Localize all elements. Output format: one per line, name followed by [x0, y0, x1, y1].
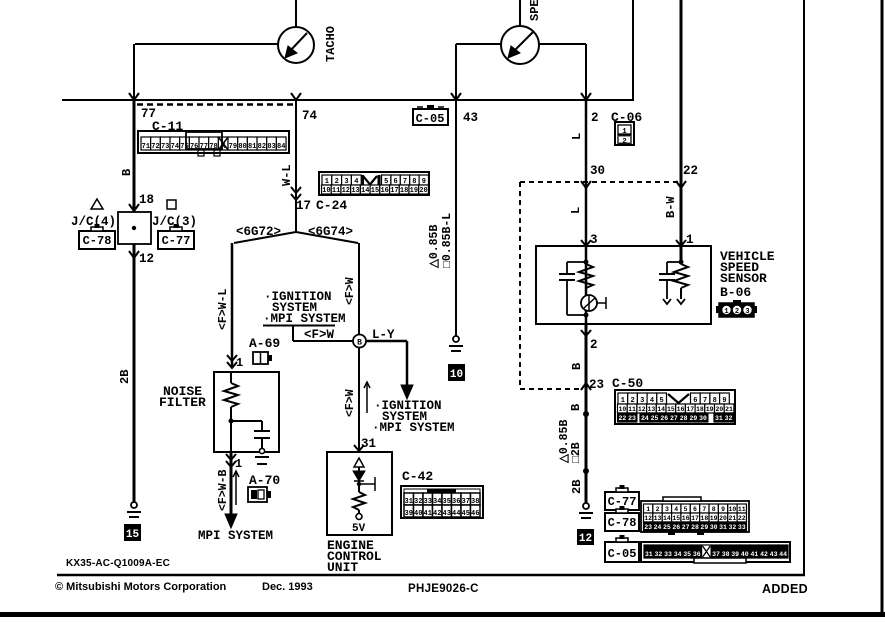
- svg-text:2B: 2B: [118, 370, 132, 384]
- svg-text:23: 23: [644, 524, 652, 531]
- svg-text:L: L: [570, 133, 584, 140]
- svg-text:12: 12: [644, 515, 652, 522]
- svg-text:34: 34: [674, 551, 682, 558]
- svg-text:PHJE9026-C: PHJE9026-C: [408, 583, 479, 595]
- svg-text:W-L: W-L: [280, 164, 294, 186]
- svg-text:C-05: C-05: [416, 112, 445, 126]
- svg-text:13: 13: [351, 187, 359, 195]
- svg-text:83: 83: [267, 143, 275, 151]
- svg-text:KX35-AC-Q1009A-EC: KX35-AC-Q1009A-EC: [66, 558, 170, 569]
- svg-text:15: 15: [672, 515, 680, 522]
- svg-text:B: B: [357, 339, 362, 348]
- svg-text:1: 1: [236, 356, 243, 370]
- svg-text:20: 20: [419, 187, 427, 195]
- svg-text:40: 40: [741, 551, 749, 558]
- svg-text:Dec. 1993: Dec. 1993: [262, 581, 313, 593]
- svg-text:26: 26: [660, 415, 668, 422]
- svg-text:27: 27: [670, 415, 678, 422]
- svg-text:C-78: C-78: [83, 234, 112, 248]
- svg-text:31: 31: [719, 524, 727, 531]
- svg-text:© Mitsubishi Motors Corporatio: © Mitsubishi Motors Corporation: [55, 581, 227, 593]
- svg-text:20: 20: [715, 406, 723, 413]
- svg-text:72: 72: [151, 143, 159, 151]
- svg-text:14: 14: [663, 515, 671, 522]
- svg-text:14: 14: [657, 406, 665, 413]
- svg-text:17: 17: [691, 515, 699, 522]
- svg-text:19: 19: [710, 515, 718, 522]
- svg-text:15: 15: [667, 406, 675, 413]
- svg-text:19: 19: [410, 187, 418, 195]
- svg-text:3: 3: [590, 233, 598, 247]
- svg-text:UNIT: UNIT: [327, 560, 358, 575]
- svg-text:18: 18: [139, 193, 154, 207]
- svg-text:41: 41: [750, 551, 758, 558]
- svg-text:□0.85B-L: □0.85B-L: [441, 213, 454, 268]
- svg-text:40: 40: [414, 510, 422, 518]
- svg-text:81: 81: [248, 143, 256, 151]
- svg-text:△0.85B: △0.85B: [428, 225, 441, 269]
- svg-text:TACHO: TACHO: [324, 26, 338, 62]
- svg-text:<F>W-L: <F>W-L: [217, 288, 230, 330]
- svg-text:10: 10: [618, 406, 626, 413]
- svg-text:16: 16: [682, 515, 690, 522]
- svg-text:L: L: [569, 207, 583, 214]
- svg-text:74: 74: [171, 143, 179, 151]
- svg-text:□2B: □2B: [570, 442, 583, 463]
- svg-text:74: 74: [302, 109, 318, 123]
- svg-text:22: 22: [618, 415, 626, 422]
- svg-text:22: 22: [738, 515, 746, 522]
- svg-text:80: 80: [238, 143, 246, 151]
- svg-text:FILTER: FILTER: [159, 395, 206, 410]
- svg-text:23: 23: [628, 415, 636, 422]
- svg-text:42: 42: [433, 510, 441, 518]
- svg-text:44: 44: [452, 510, 460, 518]
- svg-text:1: 1: [235, 457, 242, 471]
- svg-text:B: B: [570, 363, 584, 370]
- svg-text:43: 43: [463, 111, 478, 125]
- svg-text:43: 43: [443, 510, 451, 518]
- svg-text:14: 14: [361, 187, 369, 195]
- svg-text:15: 15: [371, 187, 379, 195]
- svg-text:<F>W: <F>W: [344, 389, 357, 417]
- svg-text:30: 30: [590, 164, 605, 178]
- svg-text:2: 2: [735, 308, 739, 316]
- svg-text:17: 17: [296, 199, 311, 213]
- svg-text:18: 18: [696, 406, 704, 413]
- svg-text:1: 1: [724, 308, 728, 316]
- svg-text:SPEED: SPEED: [528, 0, 542, 21]
- svg-text:21: 21: [729, 515, 737, 522]
- svg-text:73: 73: [161, 143, 169, 151]
- svg-text:MPI SYSTEM: MPI SYSTEM: [198, 529, 273, 543]
- svg-text:10: 10: [450, 369, 463, 381]
- svg-text:12: 12: [638, 406, 646, 413]
- svg-text:20: 20: [719, 515, 727, 522]
- svg-text:10: 10: [729, 506, 737, 513]
- svg-text:24: 24: [641, 415, 649, 422]
- svg-text:32: 32: [654, 551, 662, 558]
- svg-text:28: 28: [680, 415, 688, 422]
- svg-text:84: 84: [277, 143, 285, 151]
- svg-text:32: 32: [725, 415, 733, 422]
- svg-text:B-W: B-W: [664, 196, 678, 218]
- svg-text:45: 45: [462, 510, 470, 518]
- svg-text:12: 12: [342, 187, 350, 195]
- svg-text:39: 39: [405, 510, 413, 518]
- svg-text:4: 4: [674, 506, 678, 513]
- svg-text:37: 37: [712, 551, 720, 558]
- svg-text:13: 13: [648, 406, 656, 413]
- svg-text:11: 11: [332, 187, 340, 195]
- svg-text:32: 32: [729, 524, 737, 531]
- svg-text:ADDED: ADDED: [762, 582, 808, 596]
- svg-text:5V: 5V: [352, 523, 366, 535]
- svg-text:A-69: A-69: [249, 336, 280, 351]
- svg-text:31: 31: [361, 437, 376, 451]
- svg-text:25: 25: [663, 524, 671, 531]
- svg-text:13: 13: [654, 515, 662, 522]
- svg-text:2: 2: [622, 138, 627, 146]
- svg-text:<F>W: <F>W: [304, 328, 335, 342]
- svg-text:B: B: [120, 169, 134, 176]
- svg-text:38: 38: [722, 551, 730, 558]
- svg-text:18: 18: [400, 187, 408, 195]
- svg-text:35: 35: [683, 551, 691, 558]
- svg-text:A-70: A-70: [249, 473, 280, 488]
- svg-text:2: 2: [590, 338, 598, 352]
- svg-text:24: 24: [654, 524, 662, 531]
- svg-text:10: 10: [322, 187, 330, 195]
- svg-text:C-78: C-78: [608, 516, 637, 530]
- svg-text:C-77: C-77: [162, 234, 191, 248]
- svg-text:B-06: B-06: [720, 285, 751, 300]
- svg-text:18: 18: [700, 515, 708, 522]
- svg-text:C-50: C-50: [612, 376, 643, 391]
- svg-text:2: 2: [591, 111, 599, 125]
- svg-text:17: 17: [390, 187, 398, 195]
- svg-text:16: 16: [380, 187, 388, 195]
- svg-text:31: 31: [715, 415, 723, 422]
- svg-text:30: 30: [699, 415, 707, 422]
- svg-text:2B: 2B: [570, 480, 584, 494]
- svg-text:46: 46: [471, 510, 479, 518]
- svg-text:29: 29: [700, 524, 708, 531]
- svg-text:·MPI SYSTEM: ·MPI SYSTEM: [372, 421, 455, 435]
- svg-text:41: 41: [424, 510, 432, 518]
- svg-text:6: 6: [693, 506, 697, 513]
- svg-text:<F>W-B: <F>W-B: [217, 469, 230, 511]
- svg-text:82: 82: [258, 143, 266, 151]
- svg-text:16: 16: [677, 406, 685, 413]
- svg-text:29: 29: [689, 415, 697, 422]
- svg-text:<6G74>: <6G74>: [308, 225, 353, 239]
- svg-text:21: 21: [725, 406, 733, 413]
- svg-text:8: 8: [712, 506, 716, 513]
- svg-text:1: 1: [686, 233, 694, 247]
- svg-text:<6G72>: <6G72>: [236, 225, 281, 239]
- svg-text:12: 12: [579, 533, 592, 545]
- svg-text:12: 12: [139, 252, 154, 266]
- svg-text:C-42: C-42: [402, 469, 433, 484]
- svg-text:11: 11: [738, 506, 746, 513]
- svg-text:79: 79: [229, 143, 237, 151]
- svg-text:25: 25: [651, 415, 659, 422]
- svg-text:11: 11: [628, 406, 636, 413]
- svg-text:26: 26: [672, 524, 680, 531]
- svg-text:44: 44: [779, 551, 787, 558]
- svg-text:33: 33: [738, 524, 746, 531]
- svg-text:<F>W: <F>W: [344, 277, 357, 305]
- svg-text:9: 9: [721, 506, 725, 513]
- svg-text:2: 2: [656, 506, 660, 513]
- svg-text:3: 3: [665, 506, 669, 513]
- svg-text:1: 1: [646, 506, 650, 513]
- svg-text:19: 19: [706, 406, 714, 413]
- svg-text:SENSOR: SENSOR: [720, 271, 767, 286]
- svg-text:B: B: [569, 404, 583, 411]
- svg-text:C-24: C-24: [316, 198, 347, 213]
- svg-text:36: 36: [693, 551, 701, 558]
- svg-text:31: 31: [645, 551, 653, 558]
- svg-text:7: 7: [702, 506, 706, 513]
- svg-text:17: 17: [686, 406, 694, 413]
- svg-text:39: 39: [731, 551, 739, 558]
- svg-text:22: 22: [683, 164, 698, 178]
- svg-text:43: 43: [770, 551, 778, 558]
- svg-text:L-Y: L-Y: [372, 328, 395, 342]
- svg-text:·MPI SYSTEM: ·MPI SYSTEM: [263, 312, 346, 326]
- svg-text:28: 28: [691, 524, 699, 531]
- svg-text:23: 23: [589, 378, 604, 392]
- svg-text:30: 30: [710, 524, 718, 531]
- svg-text:5: 5: [684, 506, 688, 513]
- svg-text:15: 15: [126, 529, 140, 541]
- svg-text:27: 27: [682, 524, 690, 531]
- svg-text:C-05: C-05: [608, 547, 637, 561]
- svg-text:33: 33: [664, 551, 672, 558]
- svg-text:3: 3: [745, 308, 749, 316]
- svg-text:71: 71: [142, 143, 150, 151]
- svg-text:42: 42: [760, 551, 768, 558]
